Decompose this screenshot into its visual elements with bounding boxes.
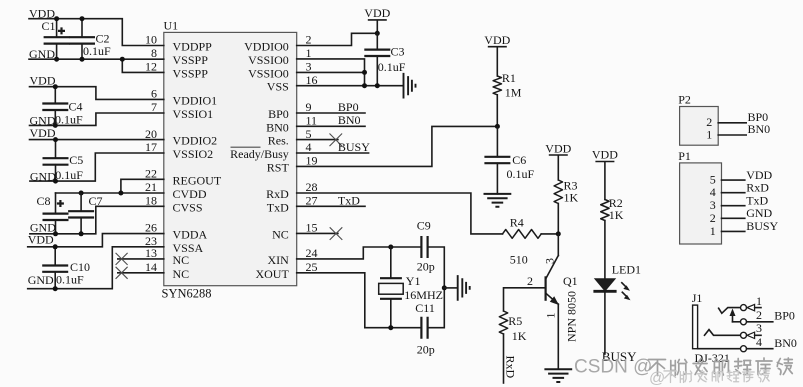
- wire R1 bottom to node: [496, 95, 498, 127]
- svg-text:RST: RST: [267, 160, 290, 174]
- svg-text:P2: P2: [678, 93, 691, 107]
- diode LED1 triangle: [594, 278, 616, 291]
- capacitor C6 plates: [484, 157, 510, 163]
- svg-text:25: 25: [306, 260, 318, 274]
- P1 pin 2 wire: [722, 217, 745, 219]
- svg-text:13: 13: [145, 246, 157, 260]
- connector P2 body: [680, 107, 719, 146]
- junction crystal ground node: [442, 285, 447, 290]
- junction C5 top: [53, 137, 58, 142]
- svg-text:26: 26: [145, 221, 157, 235]
- wire U1 pin 21 CVDD rail: [56, 192, 164, 194]
- capacitor C7 plates: [68, 211, 94, 217]
- ground symbol (rotated) for crystal caps: [458, 275, 470, 301]
- svg-text:R1: R1: [502, 71, 516, 85]
- wire R3 bottom to collector node: [557, 204, 559, 234]
- wire U1 pin 5 Res. stub: [297, 139, 338, 141]
- svg-text:BP0: BP0: [774, 309, 795, 323]
- wire U1 pin 25 XOUT to bottom rail: [297, 273, 422, 328]
- no-connect X pin 5: [330, 134, 343, 147]
- svg-text:P1: P1: [678, 149, 691, 163]
- svg-text:VDDIO2: VDDIO2: [173, 134, 218, 148]
- svg-text:TxD: TxD: [267, 200, 289, 214]
- wire VDD rail block5 with branch up to U1 pin 26 VDDA: [28, 234, 164, 247]
- svg-text:16: 16: [306, 73, 318, 87]
- svg-text:6: 6: [151, 87, 157, 101]
- svg-text:0.1uF: 0.1uF: [507, 167, 535, 181]
- watermark glyph 6 row 2 (faint overlay): [743, 370, 755, 382]
- J1 tip contact spring (pin 1): [719, 308, 741, 314]
- svg-text:28: 28: [306, 180, 318, 194]
- svg-text:BN0: BN0: [774, 336, 797, 350]
- watermark glyph 4 row 2 (faint overlay): [712, 370, 722, 382]
- junction RST node: [495, 124, 500, 129]
- svg-text:BN0: BN0: [338, 113, 361, 127]
- ground symbol (rotated) for VSS: [404, 73, 416, 99]
- capacitor C8 (electrolytic) leads: [55, 193, 57, 214]
- svg-text:C8: C8: [37, 194, 51, 208]
- junction crystal top: [388, 245, 393, 250]
- capacitor C11 plates (series in bottom rail): [421, 317, 427, 339]
- wire GND rail block5 with branch up to U1 pin 23 VSSA: [28, 247, 164, 289]
- junction C8 bottom: [53, 231, 58, 236]
- svg-text:BP0: BP0: [338, 100, 359, 114]
- svg-text:3: 3: [306, 60, 312, 74]
- junction C5 bottom: [53, 179, 58, 184]
- power symbol VDD above R2: [596, 162, 613, 200]
- svg-text:VDD: VDD: [592, 148, 618, 162]
- svg-text:18: 18: [145, 194, 157, 208]
- P1 pin 4 wire: [722, 192, 745, 194]
- wire U1 pin 3 VSSIO0 to vertical bus: [297, 71, 365, 73]
- resistor R3 zigzag: [554, 180, 562, 204]
- transistor Q1 collector diagonal: [546, 256, 559, 280]
- wire U1 pin 11 BN0 stub: [297, 125, 365, 127]
- svg-text:7: 7: [151, 100, 157, 114]
- wire collector node down to Q1 collector: [557, 234, 559, 256]
- J1 pin 3 contact circle: [741, 332, 747, 338]
- P1 pin 5 wire: [722, 179, 745, 181]
- svg-text:510: 510: [510, 253, 528, 267]
- svg-text:C1: C1: [42, 19, 56, 33]
- wire R4 to collector node: [541, 233, 558, 235]
- watermark glyph 3 row 1: [693, 359, 707, 375]
- svg-text:NC: NC: [272, 227, 289, 241]
- svg-text:VSSIO2: VSSIO2: [173, 147, 214, 161]
- svg-text:RxD: RxD: [746, 181, 769, 195]
- svg-text:10: 10: [145, 33, 157, 47]
- svg-text:9: 9: [306, 100, 312, 114]
- wire U1 pin 19 RST to R1/C6 node: [297, 126, 498, 166]
- svg-text:NC: NC: [173, 253, 190, 267]
- svg-text:21: 21: [145, 180, 157, 194]
- capacitor C5 leads: [55, 140, 57, 159]
- wire bottom rail right of C11: [428, 288, 445, 328]
- wire VDD rail block1 with branch to U1 pin 10: [29, 19, 164, 46]
- P1 pin 1 wire: [722, 230, 745, 232]
- no-connect X pin 15: [330, 227, 343, 240]
- svg-text:12: 12: [145, 60, 157, 74]
- J1 pin 2 wire: [733, 321, 741, 323]
- J1 pin 4 contact circle: [741, 346, 747, 352]
- C8 plus sign: [57, 200, 64, 207]
- junction C4 top: [53, 84, 58, 89]
- svg-text:8: 8: [151, 46, 157, 60]
- svg-text:2: 2: [306, 33, 312, 47]
- svg-text:VSSIO0: VSSIO0: [248, 66, 289, 80]
- op-amp U1 SYN6288 chip body: [164, 32, 297, 285]
- svg-text:C5: C5: [69, 153, 83, 167]
- svg-text:4: 4: [710, 185, 716, 199]
- capacitor C10 plates: [42, 266, 68, 272]
- svg-text:VDD: VDD: [28, 232, 54, 246]
- svg-text:C4: C4: [69, 100, 83, 114]
- svg-text:VSSPP: VSSPP: [173, 66, 209, 80]
- svg-text:J1: J1: [692, 291, 703, 305]
- svg-text:3: 3: [756, 321, 762, 335]
- no-connect X pin 14: [116, 267, 128, 279]
- wire U1 pin 13 NC stub: [118, 258, 164, 260]
- svg-text:0.1uF: 0.1uF: [83, 44, 111, 58]
- svg-text:VDDA: VDDA: [173, 227, 208, 241]
- junction collector node R3/R4/Q1: [556, 231, 561, 236]
- junction C2 top: [80, 16, 85, 21]
- svg-text:SYN6288: SYN6288: [162, 287, 212, 301]
- svg-text:GND: GND: [746, 206, 772, 220]
- svg-text:Q1: Q1: [563, 274, 578, 288]
- resistor R1 zigzag: [493, 76, 501, 95]
- wire R2 bottom to LED1 anode: [604, 221, 606, 279]
- resistor R4 zigzag: [503, 230, 542, 239]
- svg-text:VDDIO0: VDDIO0: [244, 40, 289, 54]
- svg-text:C11: C11: [415, 301, 435, 315]
- svg-text:CVSS: CVSS: [173, 200, 203, 214]
- svg-text:CVDD: CVDD: [173, 187, 207, 201]
- svg-text:1: 1: [710, 224, 716, 238]
- wire VDD rail block3 into U1 pin 20: [30, 139, 164, 141]
- svg-text:15: 15: [306, 221, 318, 235]
- svg-text:16MHZ: 16MHZ: [404, 288, 443, 302]
- crystal Y1 body: [379, 283, 404, 294]
- svg-text:VDD: VDD: [30, 73, 56, 87]
- svg-text:VSS: VSS: [267, 80, 289, 94]
- svg-text:R4: R4: [510, 215, 524, 229]
- junction C4 bottom: [53, 123, 58, 128]
- svg-text:Y1: Y1: [406, 274, 421, 288]
- watermark glyph 5 row 1: [735, 359, 751, 375]
- capacitor C8 plates: [43, 214, 69, 220]
- wire to crystal ground: [444, 287, 457, 289]
- watermark glyph 1 row 1: [649, 360, 666, 376]
- wire GND rail block3 with branch up to U1 pin 17: [30, 153, 164, 181]
- junction pin22 joins pin21 wire: [118, 191, 123, 196]
- capacitor C7 leads: [80, 193, 82, 211]
- ground symbol at Q1 emitter: [544, 369, 572, 382]
- svg-text:1M: 1M: [505, 86, 522, 100]
- junction pin3 on bus: [362, 70, 367, 75]
- power symbol VDD above R3: [550, 155, 567, 180]
- svg-text:VSSPP: VSSPP: [173, 53, 209, 67]
- capacitor C5 plates: [43, 158, 69, 165]
- watermark glyph 2 row 1: [671, 360, 687, 376]
- watermark glyph 7 row 1: [777, 358, 792, 375]
- wire U1 pin 15 NC stub: [297, 232, 338, 234]
- capacitor C2 plates: [69, 37, 95, 43]
- svg-text:19: 19: [306, 154, 318, 168]
- capacitor C3 leads: [376, 33, 378, 49]
- svg-text:LED1: LED1: [612, 262, 641, 276]
- svg-text:1: 1: [706, 127, 712, 141]
- svg-text:1K: 1K: [564, 190, 579, 204]
- svg-text:BUSY: BUSY: [338, 140, 370, 154]
- svg-text:2: 2: [756, 308, 762, 322]
- svg-text:REGOUT: REGOUT: [173, 173, 222, 187]
- svg-text:C6: C6: [512, 153, 526, 167]
- svg-text:17: 17: [145, 140, 157, 154]
- svg-text:22: 22: [145, 167, 157, 181]
- junction C7 top: [79, 191, 84, 196]
- J1 pin 1 contact circle: [741, 305, 747, 311]
- svg-text:NPN 8050: NPN 8050: [565, 291, 579, 342]
- svg-text:VDD: VDD: [545, 141, 571, 155]
- watermark glyph 4 row 1: [714, 359, 728, 376]
- svg-text:VDD: VDD: [484, 33, 510, 47]
- capacitor C9 plates (series in top rail): [421, 236, 427, 258]
- junction C10 top: [53, 244, 58, 249]
- wire top rail right of C9: [428, 247, 445, 288]
- capacitor C1 (electrolytic) leads: [56, 19, 58, 38]
- svg-text:20: 20: [145, 127, 157, 141]
- P2 pin 1 wire: [718, 134, 746, 136]
- capacitor C3 plates: [364, 50, 390, 56]
- svg-text:R5: R5: [508, 314, 522, 328]
- watermark glyph 6 row 1: [756, 358, 772, 375]
- svg-text:2: 2: [710, 211, 716, 225]
- svg-text:BUSY: BUSY: [746, 219, 778, 233]
- capacitor C6 leads: [496, 126, 498, 156]
- connector P1 body: [680, 163, 722, 244]
- svg-text:U1: U1: [164, 19, 179, 33]
- wire U1 pin 24 XIN to top rail: [297, 247, 422, 259]
- junction on GND rail at pin12 branch: [120, 57, 125, 62]
- wire Q1 base to R5 top corner: [504, 288, 545, 311]
- svg-text:11: 11: [306, 114, 318, 128]
- watermark glyph 5 row 2 (faint overlay): [727, 370, 739, 382]
- wire GND rail block4 with branch up to U1 pin 18 CVSS: [30, 206, 164, 234]
- svg-text:1: 1: [544, 313, 558, 319]
- J1 pin 3 wire stub: [755, 334, 761, 336]
- junction C1 bottom: [54, 57, 59, 62]
- svg-text:BN0: BN0: [266, 120, 289, 134]
- wire Q1 emitter down to ground: [557, 304, 559, 369]
- svg-text:27: 27: [306, 194, 318, 208]
- resistor R5 zigzag: [499, 311, 507, 334]
- transistor Q1 emitter arrowhead: [550, 296, 559, 305]
- svg-text:3: 3: [543, 258, 557, 264]
- svg-text:Res.: Res.: [268, 134, 289, 148]
- svg-text:VDD: VDD: [30, 126, 56, 140]
- svg-text:5: 5: [306, 127, 312, 141]
- transistor Q1 base bar: [544, 276, 546, 301]
- svg-text:Ready/Busy: Ready/Busy: [230, 147, 289, 161]
- wire branch to U1 pin 12: [122, 59, 164, 72]
- svg-text:1: 1: [306, 46, 312, 60]
- svg-text:NC: NC: [173, 267, 190, 281]
- wire LED1 cathode to BUSY label: [604, 292, 606, 354]
- svg-text:@: @: [649, 370, 665, 387]
- capacitor C2 leads: [81, 19, 83, 38]
- svg-text:RxD: RxD: [266, 187, 289, 201]
- svg-text:GND: GND: [28, 273, 54, 287]
- junction crystal bottom: [388, 325, 393, 330]
- svg-text:BP0: BP0: [268, 107, 289, 121]
- svg-text:4: 4: [756, 335, 762, 349]
- junction C3 bottom on VSS wire: [375, 83, 380, 88]
- power symbol VDD above C3: [369, 20, 386, 33]
- svg-text:1K: 1K: [609, 208, 624, 222]
- wire VDD rail block2 with branch to U1 pin 6: [30, 87, 164, 100]
- wire GND rail block1 to U1 pin 8: [29, 58, 164, 60]
- svg-text:20p: 20p: [417, 343, 435, 357]
- watermark glyph 7 row 2 (faint overlay): [758, 370, 769, 382]
- wire U1 pin 9 BP0 stub: [297, 112, 365, 114]
- J1 pin 1 wire stub: [755, 307, 761, 309]
- wire U1 pin 14 NC stub: [118, 272, 164, 274]
- junction C7 bottom: [79, 231, 84, 236]
- svg-text:4: 4: [306, 140, 312, 154]
- watermark glyph 1 row 2 (faint overlay): [664, 371, 676, 383]
- svg-text:0.1uF: 0.1uF: [55, 168, 83, 182]
- no-connect X pin 13: [116, 253, 128, 265]
- wire U1 pin 16 VSS to ground: [297, 85, 403, 87]
- J1 ring contact caret (pin 3): [705, 330, 741, 336]
- svg-text:VSSIO1: VSSIO1: [173, 107, 214, 121]
- transistor Q1 emitter diagonal: [547, 294, 559, 304]
- wire U1 pin 4 Ready/Busy stub: [297, 152, 369, 154]
- svg-text:20p: 20p: [417, 260, 435, 274]
- svg-text:XOUT: XOUT: [255, 267, 289, 281]
- capacitor C1 plates: [44, 37, 70, 43]
- svg-text:24: 24: [306, 246, 318, 260]
- resistor R2 zigzag: [601, 200, 609, 221]
- svg-text:0.1uF: 0.1uF: [56, 273, 84, 287]
- P1 pin 3 wire: [722, 205, 745, 207]
- J1 switch arrow: [732, 313, 734, 322]
- svg-text:C3: C3: [391, 45, 405, 59]
- wire U1 pin 27 TxD stub: [297, 205, 365, 207]
- svg-text:2: 2: [527, 274, 533, 288]
- svg-text:14: 14: [145, 260, 157, 274]
- capacitor C10 leads: [54, 247, 56, 266]
- wire R5 bottom to RxD label: [503, 334, 505, 383]
- junction C10 bottom: [53, 286, 58, 291]
- diode LED1 cathode bar: [593, 290, 616, 293]
- J1 pin 3 break contact triangle: [747, 332, 755, 338]
- svg-text:VDDIO1: VDDIO1: [173, 93, 218, 107]
- crystal Y1 bottom plate and lead: [380, 298, 402, 300]
- svg-text:VDDPP: VDDPP: [173, 40, 213, 54]
- power symbol VDD above R1: [489, 47, 506, 76]
- junction C1 top: [54, 16, 59, 21]
- svg-text:1: 1: [756, 294, 762, 308]
- svg-text:C9: C9: [417, 218, 431, 232]
- svg-text:0.1uF: 0.1uF: [378, 60, 406, 74]
- P2 pin 2 wire: [718, 122, 746, 124]
- wire U1 pin 28 RxD down to R4: [297, 193, 503, 234]
- J1 jack body: [693, 305, 698, 349]
- svg-text:TxD: TxD: [338, 194, 360, 208]
- J1 pin 1 break contact triangle: [747, 304, 755, 310]
- capacitor C4 plates: [42, 104, 68, 111]
- wire U1 pin 22 REGOUT down to CVDD node: [121, 179, 164, 193]
- svg-text:VDD: VDD: [364, 6, 390, 20]
- watermark glyph 3 row 2 (faint overlay): [697, 370, 707, 382]
- svg-text:1K: 1K: [512, 329, 527, 343]
- C1 plus sign: [58, 27, 65, 34]
- junction VSS bus: [362, 83, 367, 88]
- junction C2 bottom: [80, 57, 85, 62]
- svg-text:RxD: RxD: [504, 356, 518, 379]
- svg-text:0.1uF: 0.1uF: [55, 113, 83, 127]
- wire GND rail block2 with branch up to U1 pin 7: [30, 113, 164, 125]
- svg-text:BN0: BN0: [748, 122, 771, 136]
- svg-text:XIN: XIN: [267, 253, 289, 267]
- crystal Y1 top lead and plate: [390, 247, 392, 278]
- capacitor C4 leads: [54, 87, 56, 104]
- J1 sleeve wire (pin 4): [698, 348, 741, 350]
- ground symbol below C6: [484, 194, 512, 207]
- LED1 emission arrow 2: [622, 292, 627, 297]
- wire U1 pin 2 VDDIO0 up to VDD node: [297, 33, 378, 45]
- svg-text:VSSIO0: VSSIO0: [248, 53, 289, 67]
- svg-text:CSDN @: CSDN @: [574, 357, 652, 378]
- watermark glyph 2 row 2 (faint overlay): [680, 371, 692, 383]
- LED1 emission arrow 1: [622, 283, 627, 288]
- junction VDD node at C3 top: [375, 31, 380, 36]
- wire U1 pin 1 VSSIO0 to vertical bus: [297, 59, 365, 86]
